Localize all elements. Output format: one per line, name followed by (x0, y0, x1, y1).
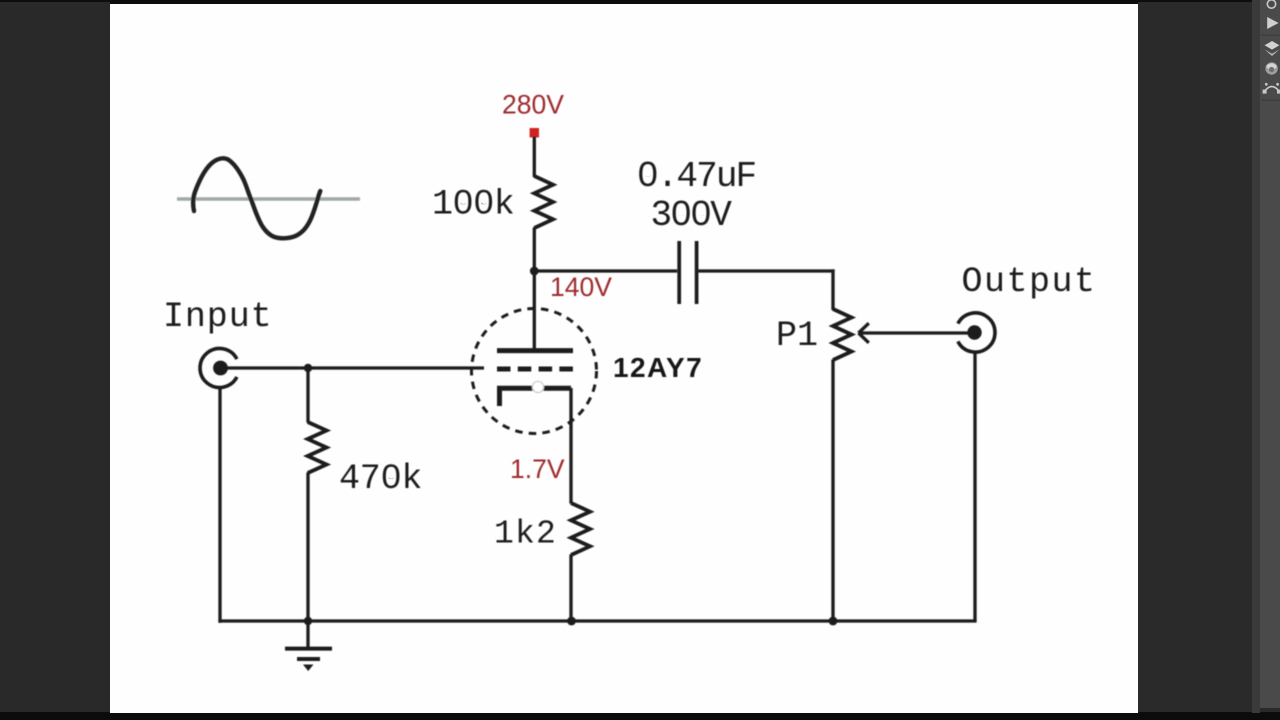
svg-text:140V: 140V (550, 272, 612, 302)
svg-text:470k: 470k (339, 459, 422, 499)
svg-text:Output: Output (962, 262, 1097, 302)
svg-text:P1: P1 (776, 316, 818, 356)
svg-text:0.47uF: 0.47uF (637, 156, 756, 197)
svg-text:100k: 100k (432, 185, 514, 225)
svg-text:Input: Input (163, 297, 273, 337)
svg-text:300V: 300V (651, 195, 733, 236)
svg-text:1.7V: 1.7V (510, 454, 565, 484)
svg-text:1k2: 1k2 (494, 516, 557, 553)
svg-text:280V: 280V (502, 90, 564, 120)
svg-text:12AY7: 12AY7 (613, 352, 703, 383)
